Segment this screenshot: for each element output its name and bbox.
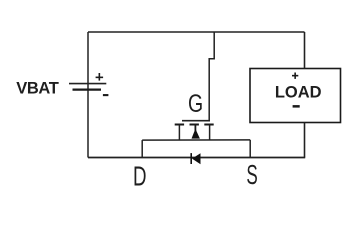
battery minus sign <box>103 94 109 96</box>
svg-text:LOAD: LOAD <box>275 84 322 102</box>
wire top rail VBAT+ to LOAD <box>88 31 305 33</box>
transistor body arrow <box>192 129 200 139</box>
wire source-drain link <box>142 139 250 141</box>
wire left vertical through battery <box>87 32 89 158</box>
wire source stub <box>209 125 211 141</box>
transistor gate line <box>182 120 210 122</box>
wire gate from top rail with jog <box>209 32 214 120</box>
wire body stub <box>194 125 196 132</box>
LOAD minus sign <box>293 105 300 108</box>
battery VBAT positive plate <box>69 83 106 85</box>
transistor body contact dash <box>190 124 199 126</box>
svg-text:S: S <box>246 159 257 190</box>
wire bottom rail <box>88 157 305 159</box>
LOAD plus sign <box>292 73 298 79</box>
svg-text:G: G <box>188 90 203 118</box>
svg-text:VBAT: VBAT <box>16 80 59 98</box>
battery plus sign <box>96 73 104 81</box>
LOAD box <box>250 69 341 123</box>
battery VBAT negative plate <box>73 88 102 90</box>
wire LOAD bottom <box>304 123 306 158</box>
diode body anode triangle <box>192 153 201 164</box>
svg-text:D: D <box>133 161 147 191</box>
transistor source contact dash <box>204 124 213 126</box>
transistor drain contact dash <box>175 124 184 126</box>
wire drain stub <box>178 125 180 141</box>
wire source down to bottom rail <box>249 140 251 158</box>
wire drain down to bottom rail <box>141 140 143 157</box>
wire LOAD top <box>304 32 306 69</box>
diode body cathode bar <box>190 153 192 164</box>
